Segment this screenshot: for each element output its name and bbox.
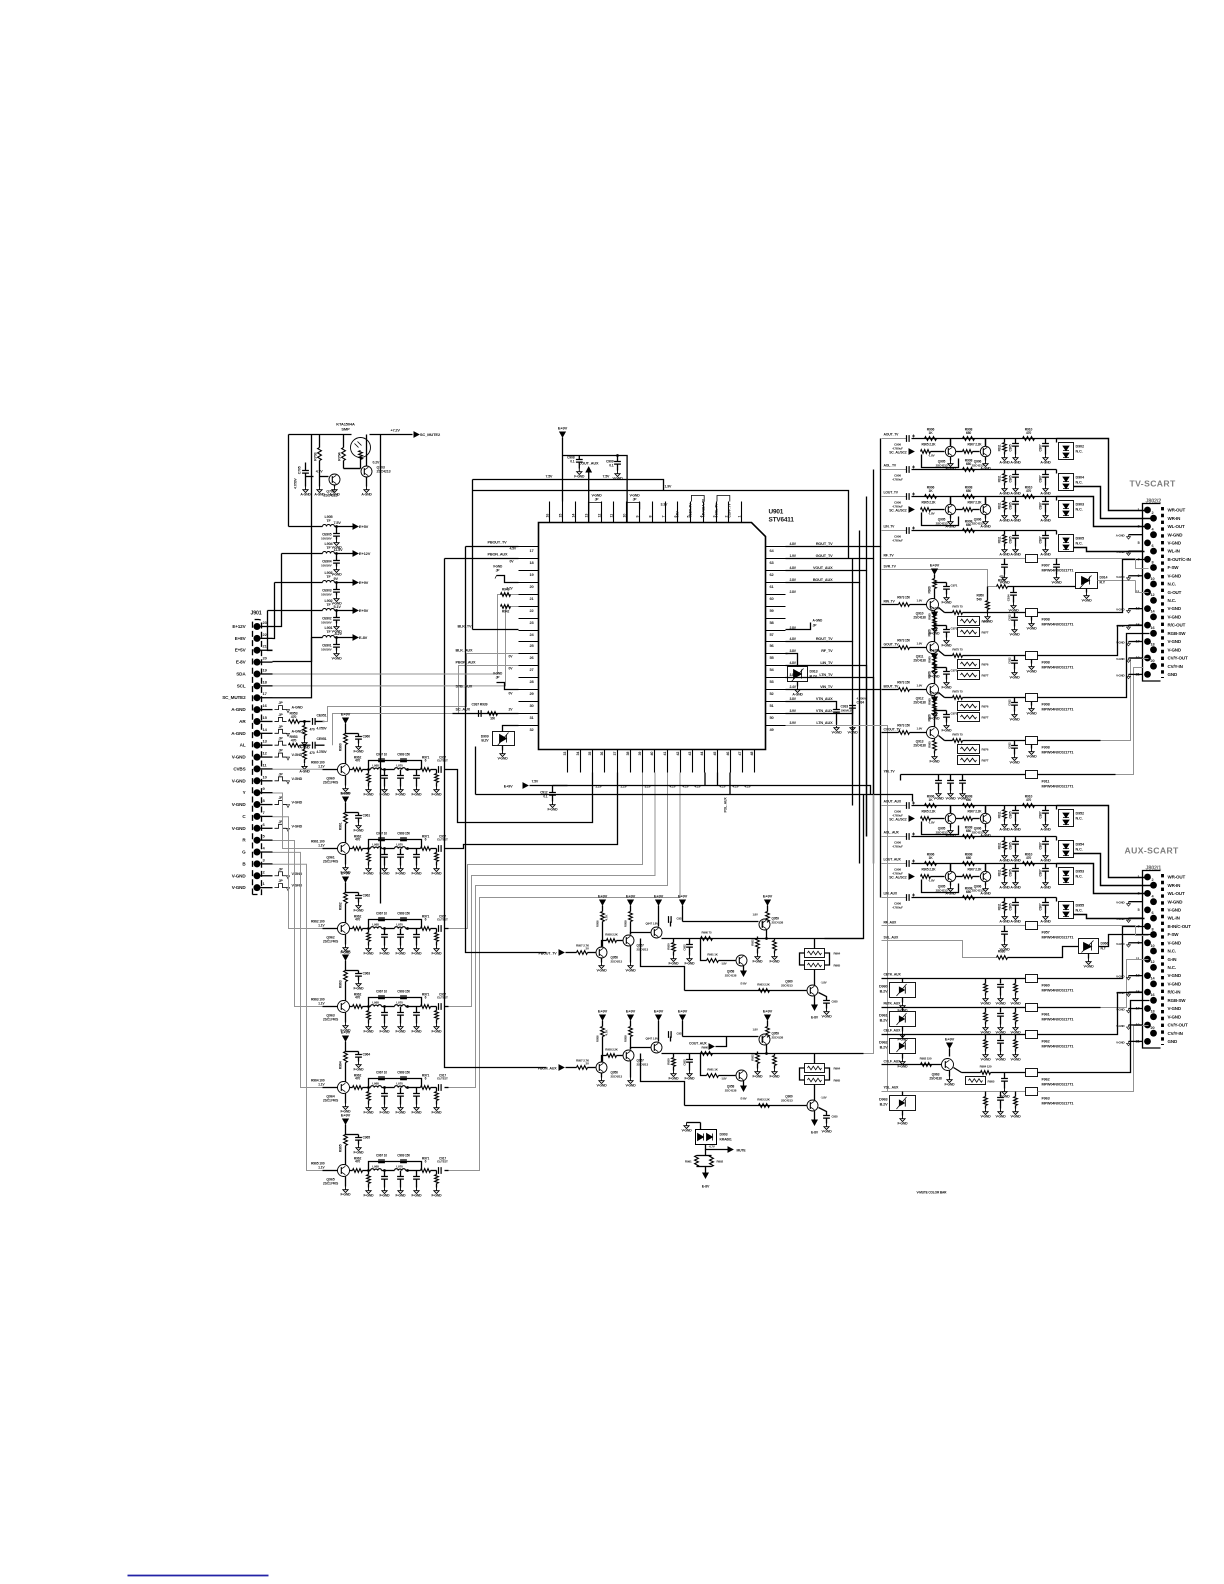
svg-text:V-GND: V-GND bbox=[292, 872, 303, 876]
svg-text:B.2V: B.2V bbox=[880, 1046, 888, 1050]
svg-text:R982 150: R982 150 bbox=[920, 1057, 932, 1061]
svg-text:R964: R964 bbox=[834, 1067, 841, 1071]
svg-text:470: 470 bbox=[1026, 489, 1031, 493]
capacitor C908 0.1 IC top bbox=[578, 456, 580, 460]
U901 pin 26 bbox=[519, 653, 539, 655]
svg-text:A-GND: A-GND bbox=[1010, 886, 1021, 890]
wire pin53 down bbox=[786, 678, 874, 864]
svg-text:2.4V: 2.4V bbox=[790, 685, 797, 689]
net SDA pin21 bbox=[273, 595, 519, 674]
ground Q row 805 b bbox=[985, 824, 987, 828]
svg-text:40: 40 bbox=[650, 752, 654, 756]
U901 pin 2 bbox=[728, 502, 730, 523]
net pin29 jumper bbox=[497, 683, 519, 690]
svg-text:50: 50 bbox=[770, 715, 774, 720]
svg-text:F-GND: F-GND bbox=[898, 1065, 909, 1069]
U901 pin 24 bbox=[519, 630, 539, 632]
wire pin51 cap C933 bbox=[786, 702, 837, 710]
svg-text:C961: C961 bbox=[363, 814, 371, 818]
svg-text:1.1V: 1.1V bbox=[318, 924, 325, 928]
inductor row L903 V-GND -> E+9V bbox=[275, 582, 323, 584]
svg-text:R911: R911 bbox=[998, 475, 1002, 482]
svg-text:46: 46 bbox=[726, 752, 730, 756]
svg-text:100/16V: 100/16V bbox=[321, 537, 333, 541]
svg-text:R956: R956 bbox=[596, 1035, 600, 1042]
svg-text:V-GND: V-GND bbox=[1116, 575, 1124, 579]
svg-text:STB_AUX: STB_AUX bbox=[456, 685, 473, 689]
svg-text:L970: L970 bbox=[396, 764, 403, 768]
U901 pin 6 bbox=[677, 502, 679, 523]
negative supply FBON_AUX bbox=[811, 1120, 818, 1127]
ferrite F907 RF bbox=[1026, 555, 1038, 563]
svg-text:2SC4138: 2SC4138 bbox=[772, 1036, 784, 1040]
ground C933 bbox=[834, 725, 839, 731]
svg-text:A-GND: A-GND bbox=[1040, 920, 1051, 924]
svg-text:V-GND: V-GND bbox=[1168, 541, 1182, 546]
svg-text:LOUT_AUX: LOUT_AUX bbox=[884, 858, 902, 862]
U901 pin 16 bbox=[549, 502, 551, 523]
resistor R64 buffer bias bbox=[344, 1052, 348, 1063]
resistor R703 22K bbox=[319, 435, 321, 448]
resistor R emitter Q960 bbox=[350, 769, 353, 771]
svg-text:V-GND: V-GND bbox=[232, 826, 247, 831]
wire bus x380 vertical bbox=[380, 435, 382, 904]
emitter resistor Q910 bbox=[939, 608, 945, 613]
svg-text:680: 680 bbox=[966, 856, 971, 860]
net SC_MUTE2 pin? top cluster bbox=[273, 435, 312, 698]
svg-text:A-GND: A-GND bbox=[1040, 519, 1051, 523]
ground emitter Q964 bbox=[345, 1094, 347, 1104]
leg cv Q965 x416 bbox=[416, 1171, 418, 1177]
svg-text:E+9V: E+9V bbox=[504, 785, 513, 789]
svg-text:V-GND: V-GND bbox=[1000, 1095, 1011, 1099]
inductor L Q963 6.8 bbox=[369, 1006, 371, 1008]
svg-text:2SC4138: 2SC4138 bbox=[772, 921, 784, 925]
gnd stub bottom TV bbox=[900, 775, 902, 781]
svg-text:F-GND: F-GND bbox=[341, 1193, 352, 1197]
svg-text:R964: R964 bbox=[339, 1061, 343, 1069]
transistor T3 FBON_AUX bbox=[631, 1048, 651, 1050]
resistor R emitter Q961 bbox=[350, 848, 353, 850]
svg-text:18: 18 bbox=[1151, 1010, 1155, 1014]
gnd bead Q912 bbox=[1031, 702, 1033, 706]
svg-text:A-GND: A-GND bbox=[999, 461, 1010, 465]
svg-text:2SC1740S: 2SC1740S bbox=[323, 781, 339, 785]
svg-text:D966: D966 bbox=[1101, 942, 1109, 946]
svg-text:F-GND: F-GND bbox=[432, 1030, 443, 1034]
svg-text:F-GND: F-GND bbox=[412, 793, 423, 797]
ground emitter Q965 bbox=[345, 1177, 347, 1187]
svg-text:A-GND: A-GND bbox=[999, 859, 1010, 863]
svg-text:V-GND: V-GND bbox=[493, 565, 503, 569]
capacitor C933 bbox=[833, 710, 840, 713]
capacitor CE94 row 4 bbox=[336, 638, 338, 645]
inductor L2 Q965 15 bbox=[382, 1170, 395, 1172]
svg-text:1.9V: 1.9V bbox=[665, 485, 673, 489]
svg-text:2SC4138: 2SC4138 bbox=[725, 1089, 737, 1093]
transistor T1 PBOUT_TV bbox=[596, 947, 607, 958]
svg-text:E+9V: E+9V bbox=[678, 893, 688, 898]
inductor L Q960 6.8 bbox=[369, 769, 371, 771]
U901 pin 22 bbox=[519, 606, 539, 608]
svg-text:R/C-OUT: R/C-OUT bbox=[1168, 623, 1186, 628]
svg-text:680: 680 bbox=[966, 798, 971, 802]
J802/1 pin 18 V-GND bbox=[1150, 1013, 1157, 1020]
J802/1 pin 13 V-GND bbox=[1144, 972, 1151, 979]
diode D964 box aux bbox=[1079, 939, 1099, 954]
ground emitter Q963 bbox=[345, 1013, 347, 1023]
svg-text:N.C.: N.C. bbox=[1076, 542, 1083, 546]
wire q3 base bbox=[344, 468, 361, 470]
svg-text:R973 150: R973 150 bbox=[897, 639, 910, 643]
resistor under T5b FBON_AUX bbox=[774, 1054, 776, 1056]
svg-text:CE951: CE951 bbox=[317, 713, 327, 717]
wire bottom supply to pin33 bbox=[553, 785, 568, 787]
capacitor CE95x AR bbox=[313, 718, 316, 725]
svg-text:VDDT_TV: VDDT_TV bbox=[689, 503, 693, 518]
svg-text:C969 150: C969 150 bbox=[397, 1071, 410, 1075]
svg-text:N.C.: N.C. bbox=[1168, 582, 1176, 587]
svg-text:R960: R960 bbox=[928, 698, 932, 705]
svg-text:E-8V: E-8V bbox=[236, 660, 247, 665]
svg-text:SC_MUTE2: SC_MUTE2 bbox=[420, 432, 441, 437]
svg-text:AR: AR bbox=[239, 719, 246, 724]
resistor R957 PBOUT_TV bbox=[577, 951, 588, 955]
svg-text:0.1: 0.1 bbox=[570, 460, 575, 464]
svg-text:V-GND: V-GND bbox=[934, 797, 945, 801]
svg-text:V-GND: V-GND bbox=[822, 1015, 833, 1019]
svg-text:BOUT_TV: BOUT_TV bbox=[884, 685, 900, 689]
wire bus E12V vertical bbox=[288, 435, 290, 527]
svg-text:C907: C907 bbox=[1039, 869, 1043, 876]
svg-text:3.8V: 3.8V bbox=[790, 649, 797, 653]
resistor input Q913 bbox=[899, 731, 910, 735]
U901 pin 48 bbox=[754, 750, 756, 773]
inductor L2 Q964 15 bbox=[382, 1087, 395, 1089]
capacitor C63 buffer bbox=[346, 970, 359, 972]
cap leg row 496 1 bbox=[1004, 497, 1006, 501]
svg-text:A-GND: A-GND bbox=[999, 886, 1010, 890]
svg-text:W-GND: W-GND bbox=[1168, 532, 1184, 537]
svg-text:F-GND: F-GND bbox=[396, 872, 407, 876]
svg-text:R960: R960 bbox=[339, 743, 343, 751]
leg cap chain PBOUT_TV bbox=[689, 939, 691, 945]
trunk x873 long bbox=[873, 559, 875, 795]
U901 pin 1 bbox=[741, 502, 743, 523]
svg-text:RIN_TV: RIN_TV bbox=[884, 600, 896, 604]
JH05 pin 13 AL bbox=[254, 742, 261, 749]
svg-text:C907: C907 bbox=[1039, 842, 1043, 849]
wire buffer1 out staircase bbox=[449, 770, 593, 823]
svg-text:F-GND: F-GND bbox=[412, 1030, 423, 1034]
resistor emitter gnd Q910 bbox=[934, 611, 936, 613]
svg-text:N.C.: N.C. bbox=[1076, 909, 1083, 913]
wire CVBS net to buffer bbox=[273, 768, 323, 770]
wire q2 base bbox=[319, 461, 321, 477]
J802/2 pin 16 RGB-SW bbox=[1150, 630, 1157, 637]
svg-text:A-GND: A-GND bbox=[1040, 886, 1051, 890]
capacitor CE91 row 1 bbox=[336, 554, 338, 561]
svg-text:L970: L970 bbox=[396, 1165, 403, 1169]
audio row wire y496 bbox=[882, 496, 907, 498]
transistor Q961 2SC1740S bbox=[338, 843, 350, 855]
svg-text:A-GND: A-GND bbox=[231, 707, 246, 712]
svg-text:E+9V: E+9V bbox=[930, 562, 940, 567]
output wire PBOUT_TV bbox=[736, 938, 815, 940]
transistor Q703 2SC4213 bbox=[361, 466, 372, 477]
svg-text:C955: C955 bbox=[832, 1115, 839, 1119]
J802/1 pin 5 V-GND bbox=[1144, 907, 1151, 914]
svg-text:A-GND: A-GND bbox=[1116, 534, 1125, 538]
svg-text:MPW04N0C0217T1: MPW04N0C0217T1 bbox=[1042, 666, 1074, 670]
svg-text:C905: C905 bbox=[1009, 475, 1013, 482]
svg-text:V-GND: V-GND bbox=[493, 672, 503, 676]
svg-text:V-GND: V-GND bbox=[1116, 917, 1124, 921]
svg-text:SC_MUTE2: SC_MUTE2 bbox=[222, 695, 246, 700]
svg-text:V-GND: V-GND bbox=[292, 884, 303, 888]
J802/2 pin 14 V-GND bbox=[1150, 614, 1157, 621]
svg-text:R977: R977 bbox=[982, 716, 989, 720]
svg-text:R956: R956 bbox=[596, 920, 600, 927]
cap leg row 897 1 bbox=[1004, 898, 1006, 902]
svg-text:7.5V: 7.5V bbox=[546, 475, 554, 479]
svg-text:C905: C905 bbox=[1009, 869, 1013, 876]
svg-text:L968: L968 bbox=[372, 1001, 379, 1005]
svg-text:F-GND: F-GND bbox=[354, 909, 365, 913]
svg-text:V-GND: V-GND bbox=[630, 494, 641, 498]
svg-text:-1.8V: -1.8V bbox=[821, 981, 827, 985]
svg-text:RF_AUX: RF_AUX bbox=[884, 921, 898, 925]
leg rv Q964 x368 bbox=[368, 1088, 370, 1092]
svg-text:N.C.: N.C. bbox=[1168, 598, 1176, 603]
base wire T6 PBOUT_TV bbox=[685, 990, 807, 992]
svg-text:C969 150: C969 150 bbox=[397, 1154, 410, 1158]
U901 pin 12 bbox=[601, 502, 603, 523]
ground emitter Q960 bbox=[345, 776, 347, 786]
U901 pin 57 bbox=[766, 630, 786, 632]
svg-text:E+9V: E+9V bbox=[654, 893, 664, 898]
svg-text:1.1V: 1.1V bbox=[318, 1166, 325, 1170]
svg-text:LOUT_TV: LOUT_TV bbox=[884, 491, 899, 495]
svg-text:R973 150: R973 150 bbox=[897, 681, 910, 685]
leg res chain FBON_AUX bbox=[673, 1054, 675, 1058]
resistor mid row 496 bbox=[956, 509, 963, 511]
svg-text:16: 16 bbox=[1151, 993, 1155, 997]
svg-text:E+8V: E+8V bbox=[235, 636, 247, 641]
cap leg row 805 2 bbox=[1015, 806, 1017, 811]
svg-text:V-GND: V-GND bbox=[1116, 1024, 1124, 1028]
resistor R62 buffer bias bbox=[344, 893, 348, 904]
svg-text:F-GND: F-GND bbox=[412, 872, 423, 876]
resistor emitter gnd Q913 bbox=[934, 739, 936, 741]
svg-text:4.7/50uF: 4.7/50uF bbox=[892, 906, 903, 910]
svg-text:4.7/50V: 4.7/50V bbox=[317, 726, 328, 730]
transistor T6 FBON_AUX bbox=[814, 1085, 816, 1101]
svg-text:470: 470 bbox=[999, 575, 1004, 579]
negative supply PBOUT_TV bbox=[811, 1005, 818, 1012]
cap bias Q910 bbox=[935, 582, 947, 584]
JH05 pin 14 A-GND bbox=[254, 730, 261, 737]
diode box row 496 bbox=[1056, 497, 1058, 501]
wire top-left supply bbox=[289, 434, 352, 436]
svg-text:A-GND: A-GND bbox=[999, 553, 1010, 557]
wire buffer6 out staircase bbox=[449, 773, 681, 1171]
svg-text:A-GND: A-GND bbox=[329, 493, 340, 497]
ferrite driver Q912 bbox=[1026, 694, 1038, 702]
svg-text:KRA661: KRA661 bbox=[720, 1138, 732, 1142]
svg-text:V-GND: V-GND bbox=[1168, 647, 1182, 652]
svg-text:BOUT_AUX: BOUT_AUX bbox=[813, 578, 833, 582]
gnd bead Q913 bbox=[1031, 745, 1033, 749]
leg cv Q962 x384 bbox=[384, 929, 386, 935]
emitter resistor Q913 bbox=[939, 736, 945, 741]
svg-text:R965: R965 bbox=[834, 964, 841, 968]
inductor L Q962 6.8 bbox=[369, 928, 371, 930]
audio input network AR bbox=[275, 717, 287, 721]
svg-text:R907 2.2K: R907 2.2K bbox=[968, 868, 983, 872]
wire pin52 down bbox=[786, 690, 881, 898]
J802/2 pin 11 G-OUT bbox=[1144, 589, 1151, 596]
ground Q row 438 a bbox=[950, 457, 952, 461]
wire driver out Q910 bbox=[971, 612, 1027, 614]
transistor T3 PBOUT_TV bbox=[631, 933, 651, 935]
svg-text:D903: D903 bbox=[1076, 503, 1085, 507]
svg-text:10: 10 bbox=[1151, 577, 1155, 581]
svg-text:GND: GND bbox=[1168, 1039, 1178, 1044]
svg-text:470: 470 bbox=[355, 1160, 360, 1164]
cap T3 FBON_AUX bbox=[670, 1037, 672, 1042]
U901 pin 30 bbox=[519, 701, 539, 703]
wire svr to connector bbox=[1098, 580, 1136, 582]
wire buffer5 out staircase bbox=[449, 773, 668, 1088]
svg-text:F911: F911 bbox=[1042, 780, 1050, 784]
J802/1 pin 4 W-GND bbox=[1150, 898, 1157, 905]
svg-text:R961 1K: R961 1K bbox=[707, 953, 718, 957]
svg-text:L970: L970 bbox=[396, 923, 403, 927]
inductor L Q961 6.8 bbox=[369, 848, 371, 850]
svg-text:2: 2 bbox=[1152, 511, 1154, 515]
U901 pin 35 bbox=[592, 750, 594, 773]
svg-text:R963 2.2K: R963 2.2K bbox=[757, 1098, 771, 1102]
wires TV rows to connector bbox=[1057, 439, 1145, 511]
wire loop pin17 to midcluster1 bbox=[466, 547, 547, 953]
svg-text:V-GND: V-GND bbox=[292, 824, 303, 828]
transistor Q911 2SC4213 bbox=[927, 642, 939, 654]
J802/1 pin 20 CV/Y-IN bbox=[1150, 1030, 1157, 1037]
cap bias Q913 bbox=[935, 710, 947, 712]
svg-text:F-GND: F-GND bbox=[364, 1030, 375, 1034]
leg rv Q963 x436 bbox=[436, 1007, 438, 1011]
svg-text:V-GND: V-GND bbox=[1027, 670, 1038, 674]
U901 pin 27 bbox=[519, 665, 539, 667]
svg-text:COUT_AUX: COUT_AUX bbox=[579, 462, 599, 466]
svg-text:EL/TEST: EL/TEST bbox=[437, 759, 448, 763]
svg-text:R980: R980 bbox=[998, 950, 1006, 954]
svg-text:E-8V: E-8V bbox=[740, 1097, 746, 1101]
svg-text:F-GND: F-GND bbox=[396, 1030, 407, 1034]
ground T6 FBON_AUX bbox=[814, 1111, 816, 1120]
svg-text:C963: C963 bbox=[363, 972, 371, 976]
svg-text:R963 2.2K: R963 2.2K bbox=[757, 983, 771, 987]
cap leg row 530 2 bbox=[1015, 531, 1017, 536]
resistor mid row 438 bbox=[956, 451, 963, 453]
resistor R emitter Q964 bbox=[350, 1087, 353, 1089]
cap leg driver Q911 bbox=[1014, 656, 1016, 661]
svg-text:15: 15 bbox=[559, 514, 563, 518]
U901 pin 45 bbox=[717, 750, 719, 773]
diode box row 863 bbox=[1056, 864, 1058, 868]
J802/2 pin 7 B-OUT/C-IN bbox=[1144, 556, 1151, 563]
svg-text:8: 8 bbox=[649, 516, 653, 518]
wire pin57 jumper gnd bbox=[786, 623, 811, 630]
leg cv Q965 x400 bbox=[400, 1171, 402, 1177]
svg-text:V-GND: V-GND bbox=[981, 1115, 992, 1119]
JH05 pin 12 V-GND bbox=[254, 754, 261, 761]
cap leg row 836 1 bbox=[1004, 837, 1006, 841]
resistor bias Q913 bbox=[933, 707, 937, 717]
bus wire y490 bbox=[473, 491, 849, 559]
svg-text:R961 1K: R961 1K bbox=[707, 1068, 718, 1072]
ground q2 emitter bbox=[334, 485, 336, 487]
svg-text:C967 10: C967 10 bbox=[376, 832, 387, 836]
svg-text:1.9V: 1.9V bbox=[917, 642, 923, 646]
svg-text:D904: D904 bbox=[1076, 476, 1086, 480]
svg-text:1K: 1K bbox=[928, 431, 933, 435]
power bottom opto bbox=[705, 1167, 707, 1173]
svg-text:F-GND: F-GND bbox=[753, 1075, 764, 1079]
feedback loop row 805 bbox=[922, 822, 959, 835]
svg-text:C905: C905 bbox=[1009, 502, 1013, 509]
U901 pin 54 bbox=[766, 665, 786, 667]
signal arrow SC_MUTE2 bbox=[414, 431, 420, 438]
svg-text:C967 10: C967 10 bbox=[376, 1071, 387, 1075]
wire pin21 to row4 bbox=[268, 611, 273, 651]
svg-text:F-GND: F-GND bbox=[942, 644, 953, 648]
cap leg driver Q910 bbox=[1014, 613, 1016, 618]
svg-text:4.7K: 4.7K bbox=[605, 914, 609, 921]
inductor row L902 V-GND -> E+5V bbox=[268, 610, 323, 612]
chain wire FBON_AUX bbox=[662, 1053, 736, 1055]
svg-text:4.8V: 4.8V bbox=[790, 542, 797, 546]
ground Q911 bbox=[932, 669, 937, 675]
svg-text:R969: R969 bbox=[928, 586, 932, 593]
U901 pin 52 bbox=[766, 689, 786, 691]
svg-text:WL-IN: WL-IN bbox=[1168, 916, 1180, 921]
svg-text:F-GND: F-GND bbox=[354, 987, 365, 991]
svg-text:SCL: SCL bbox=[237, 683, 246, 688]
audio row wire y438 bbox=[882, 438, 907, 440]
svg-text:N.C.: N.C. bbox=[1076, 450, 1083, 454]
svg-text:EL/TEST: EL/TEST bbox=[437, 918, 448, 922]
svg-text:4.8V: 4.8V bbox=[790, 637, 797, 641]
svg-text:F-GND: F-GND bbox=[432, 1194, 443, 1198]
leg cv Q963 x384 bbox=[384, 1007, 386, 1013]
audio row wire y897 bbox=[882, 897, 907, 899]
wire base Q960 bbox=[323, 769, 338, 771]
transistor Q912 2SC4213 bbox=[927, 684, 939, 696]
JH05 pin 17 SC_MUTE2 bbox=[254, 694, 261, 701]
wire base Q965 bbox=[323, 1170, 338, 1172]
svg-text:EL/TEST: EL/TEST bbox=[437, 1077, 448, 1081]
U901 pin 44 bbox=[704, 750, 706, 773]
svg-text:R704: R704 bbox=[338, 451, 342, 461]
leg cv Q961 x384 bbox=[384, 849, 386, 855]
svg-text:F-GND: F-GND bbox=[548, 808, 559, 812]
svg-text:10: 10 bbox=[623, 514, 627, 518]
svg-text:SC_AL/SC2: SC_AL/SC2 bbox=[889, 818, 907, 822]
resistor R emitter Q962 bbox=[350, 928, 353, 930]
leg cv Q963 x416 bbox=[416, 1007, 418, 1013]
